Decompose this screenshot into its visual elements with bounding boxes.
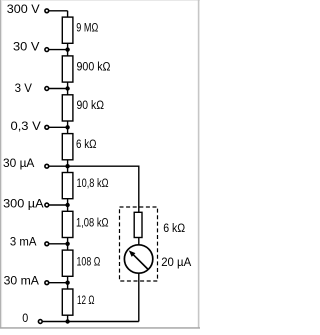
junction node 0 (bottom) [65, 319, 69, 323]
terminal 30 mA [45, 281, 49, 285]
junction node 30 mA [65, 281, 69, 285]
terminal 30 V [45, 48, 49, 52]
terminal 3 V [45, 87, 49, 91]
svg-text:9 MΩ: 9 MΩ [76, 23, 98, 35]
svg-text:20 µA: 20 µA [161, 257, 191, 269]
wire: 30 V tap [49, 49, 68, 51]
svg-text:6 kΩ: 6 kΩ [163, 223, 185, 235]
wire: 30 mA tap [49, 282, 68, 284]
svg-text:3 V: 3 V [15, 83, 33, 95]
wire: 3 mA tap [49, 243, 68, 245]
svg-text:3 mA: 3 mA [10, 237, 37, 249]
wire: branch resistor to meter [138, 238, 140, 246]
resistor R7 108 Ω [62, 250, 73, 276]
junction node 30 V [65, 47, 69, 51]
resistor R5 10,8 kΩ [62, 173, 73, 199]
svg-text:300 V: 300 V [7, 4, 40, 16]
terminal 0,3 V [45, 125, 49, 129]
resistor R6 1,08 kΩ [62, 211, 73, 237]
wire: 300 uA tap [49, 204, 68, 206]
meter needle arrow [133, 254, 148, 269]
resistor R2 900 kΩ [62, 56, 73, 82]
resistor R3 90 kΩ [62, 95, 73, 121]
resistor R4 6 kΩ [62, 134, 73, 160]
wire: 0,3 V tap [49, 126, 68, 128]
resistor R8 12 Ω [62, 289, 73, 315]
terminal 300 V [45, 9, 49, 13]
terminal 30 uA [45, 164, 49, 168]
svg-text:30 mA: 30 mA [4, 276, 40, 288]
svg-text:300 µA: 300 µA [3, 199, 44, 211]
junction node 0,3 V [65, 125, 69, 129]
wire: 3 V tap [49, 88, 68, 90]
svg-text:108 Ω: 108 Ω [77, 256, 101, 268]
wire: 300 V terminal to ladder top [49, 10, 68, 12]
junction node 3 V [65, 86, 69, 90]
svg-text:6 kΩ: 6 kΩ [76, 139, 97, 151]
svg-text:0,3 V: 0,3 V [11, 121, 42, 133]
svg-text:30 µA: 30 µA [3, 158, 35, 170]
junction node 30 uA [65, 164, 69, 168]
wire: bottom return (0 terminal to meter branch) [43, 321, 139, 323]
junction node 300 uA [65, 203, 69, 207]
wire: 30 uA tap [49, 165, 68, 167]
resistor R1 9 MΩ [62, 17, 73, 43]
svg-text:900 kΩ: 900 kΩ [77, 61, 111, 73]
terminal 0 [38, 320, 42, 324]
meter M (galvanometer) [124, 245, 152, 273]
terminal 300 uA [45, 203, 49, 207]
meter enclosure (dashed boundary) [120, 207, 158, 281]
svg-text:90 kΩ: 90 kΩ [77, 100, 105, 112]
terminal 3 mA [45, 242, 49, 246]
svg-text:12 Ω: 12 Ω [77, 295, 95, 307]
resistor Rm 6 kΩ (meter internal resistance) [134, 212, 142, 237]
wire: meter to bottom return [138, 273, 140, 322]
junction node 3 mA [65, 242, 69, 246]
wire: meter branch top (30 uA node to branch) [68, 166, 139, 212]
svg-text:30 V: 30 V [13, 42, 40, 54]
wire: main ladder vertical bus [67, 11, 69, 322]
svg-text:1,08 kΩ: 1,08 kΩ [76, 217, 109, 229]
svg-text:0: 0 [22, 313, 28, 325]
svg-text:10,8 kΩ: 10,8 kΩ [77, 178, 109, 190]
